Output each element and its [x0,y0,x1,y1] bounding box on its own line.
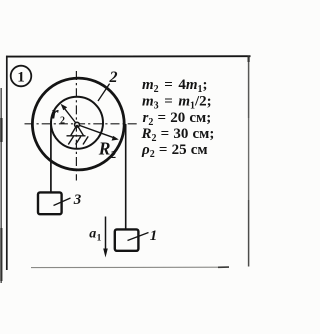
svg-text:2: 2 [60,115,65,126]
label 2 leader [98,84,110,101]
block 3 [38,192,62,214]
radius R2 arrow [77,125,119,141]
task number badge circle [11,66,32,87]
frame bottom edge (faint) [31,266,225,268]
rope to block 1 (right, outer radius) [125,124,127,230]
svg-text:1: 1 [150,228,158,244]
svg-text:3: 3 [73,192,82,208]
svg-text:r: r [52,102,60,122]
hatching [68,136,73,144]
axle pin [75,122,80,127]
svg-text:1: 1 [17,70,25,86]
svg-text:1: 1 [97,234,102,244]
svg-text:2: 2 [111,150,116,161]
svg-text:2: 2 [109,69,118,86]
frame left edge [6,56,8,270]
acceleration a1 arrow [103,217,108,258]
scan page edge (left dark streak) [0,88,2,283]
frame top edge [6,55,251,57]
label 3 leader [54,198,71,206]
centerline horizontal (dash-dot) [25,123,140,125]
rope to block 3 (left, inner radius) [50,121,52,193]
given data text [141,77,215,160]
centerline vertical (dash-dot) [75,71,77,181]
frame right edge [248,56,250,267]
fixed support under pin [67,125,89,145]
svg-text:R: R [98,138,111,158]
pulley 2 outer circle [32,78,124,170]
label 1 leader [128,233,149,241]
svg-text:m3 = m1/2;: m3 = m1/2; [142,94,212,112]
pulley 2 inner circle [51,97,103,149]
radius r2 arrow [61,104,77,125]
svg-text:a: a [89,226,96,241]
block 1 [115,229,139,250]
